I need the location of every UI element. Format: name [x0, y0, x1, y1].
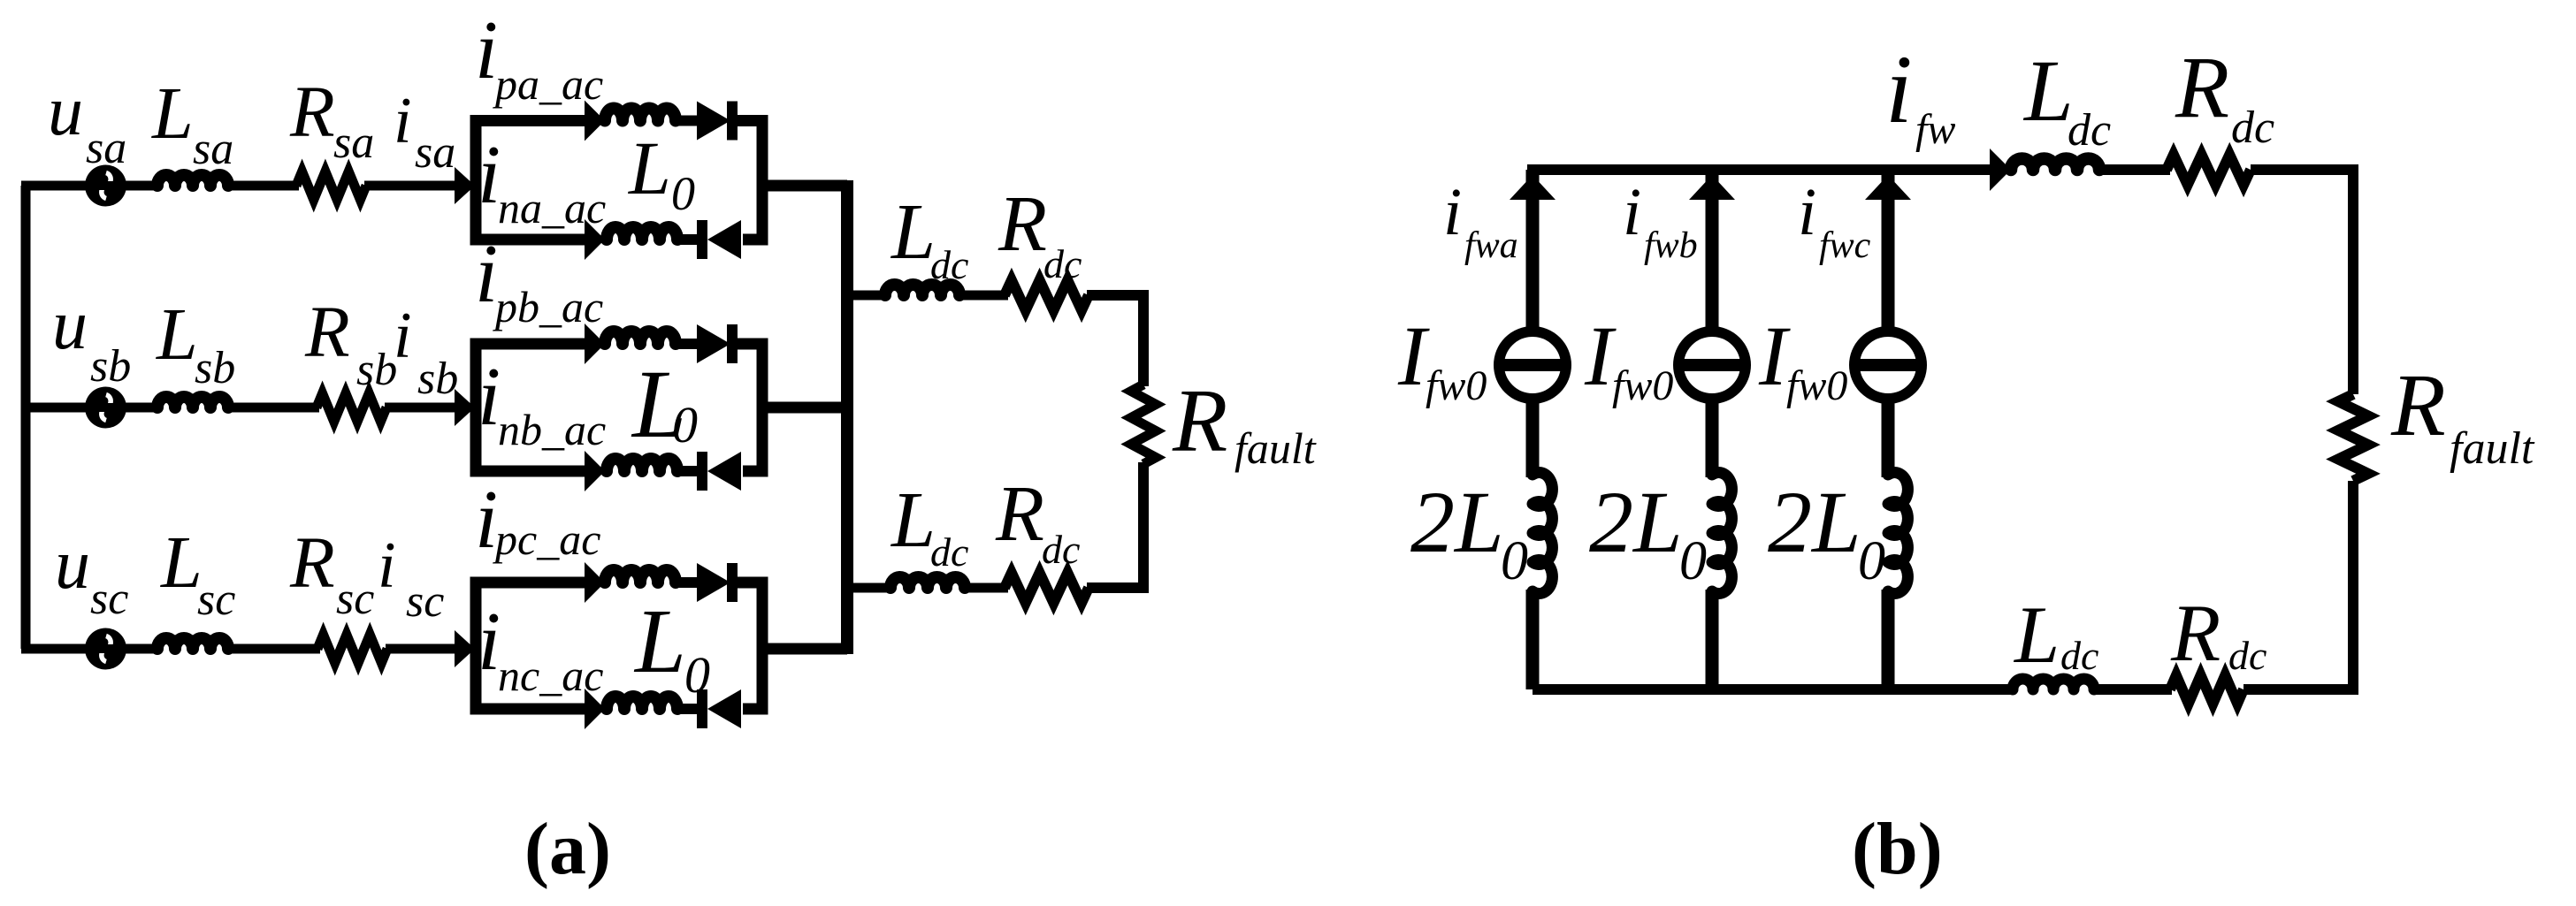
svg-text:L: L: [160, 522, 203, 604]
svg-text:2L: 2L: [1410, 473, 1504, 571]
svg-text:R: R: [995, 470, 1044, 558]
svg-text:sa: sa: [333, 118, 374, 168]
svg-text:R: R: [289, 71, 335, 152]
svg-text:sb: sb: [356, 345, 397, 395]
svg-text:0: 0: [684, 646, 710, 704]
svg-text:sc: sc: [406, 576, 444, 627]
svg-text:pc_ac: pc_ac: [493, 514, 600, 564]
svg-text:0: 0: [672, 396, 698, 453]
svg-text:L: L: [890, 188, 936, 276]
svg-text:dc: dc: [930, 242, 968, 287]
svg-text:fwa: fwa: [1464, 225, 1518, 266]
svg-text:0: 0: [1501, 531, 1528, 591]
svg-text:fault: fault: [1234, 423, 1317, 473]
svg-text:R: R: [2390, 355, 2446, 454]
svg-text:0: 0: [1858, 531, 1885, 591]
svg-text:nc_ac: nc_ac: [498, 651, 603, 700]
svg-text:i: i: [1443, 175, 1462, 249]
svg-text:na_ac: na_ac: [498, 183, 606, 232]
svg-text:i: i: [1885, 35, 1913, 143]
svg-text:0: 0: [671, 167, 695, 220]
svg-text:fwb: fwb: [1644, 225, 1698, 266]
svg-text:0: 0: [1679, 531, 1707, 591]
svg-text:i: i: [1623, 175, 1641, 249]
svg-text:(a): (a): [524, 808, 611, 890]
svg-text:i: i: [394, 85, 412, 157]
svg-text:L: L: [2013, 590, 2060, 680]
svg-text:sc: sc: [336, 574, 374, 624]
svg-text:sb: sb: [195, 343, 235, 393]
svg-text:R: R: [304, 291, 350, 372]
svg-text:fw: fw: [1915, 106, 1955, 153]
svg-text:sb: sb: [417, 354, 458, 404]
svg-text:L: L: [2022, 42, 2074, 140]
svg-text:sa: sa: [193, 124, 233, 174]
svg-text:i: i: [394, 300, 412, 372]
svg-text:R: R: [2170, 588, 2221, 678]
svg-text:i: i: [378, 529, 396, 602]
svg-text:sc: sc: [90, 574, 128, 624]
svg-text:pb_ac: pb_ac: [493, 282, 603, 331]
svg-text:fw0: fw0: [1612, 362, 1673, 409]
svg-text:sb: sb: [90, 341, 131, 392]
svg-text:nb_ac: nb_ac: [498, 405, 606, 454]
svg-text:sa: sa: [86, 123, 126, 173]
svg-text:dc: dc: [1043, 241, 1082, 286]
svg-text:u: u: [52, 286, 88, 364]
svg-text:R: R: [289, 522, 335, 603]
svg-text:i: i: [1798, 175, 1816, 249]
svg-text:L: L: [890, 476, 936, 564]
svg-text:fwc: fwc: [1819, 225, 1871, 266]
svg-text:(b): (b): [1852, 808, 1943, 890]
svg-text:fw0: fw0: [1786, 362, 1847, 409]
svg-text:dc: dc: [1042, 527, 1080, 572]
svg-text:R: R: [998, 180, 1047, 268]
svg-text:2L: 2L: [1768, 473, 1861, 571]
svg-text:fw0: fw0: [1426, 362, 1487, 409]
svg-text:dc: dc: [2060, 633, 2098, 678]
svg-text:L: L: [633, 590, 686, 692]
svg-text:L: L: [627, 126, 671, 210]
svg-text:u: u: [55, 526, 90, 604]
svg-text:dc: dc: [2068, 105, 2111, 156]
svg-text:2L: 2L: [1589, 473, 1683, 571]
svg-text:L: L: [151, 72, 194, 155]
svg-text:dc: dc: [2228, 633, 2266, 678]
svg-text:R: R: [1172, 371, 1227, 471]
svg-text:R: R: [2175, 38, 2229, 136]
svg-text:pa_ac: pa_ac: [493, 59, 603, 109]
svg-text:dc: dc: [2231, 103, 2274, 153]
svg-text:sc: sc: [197, 575, 235, 625]
svg-text:u: u: [48, 72, 83, 150]
svg-text:dc: dc: [930, 529, 968, 575]
svg-text:fault: fault: [2450, 423, 2535, 474]
svg-text:sa: sa: [415, 127, 455, 178]
svg-text:L: L: [156, 293, 198, 376]
